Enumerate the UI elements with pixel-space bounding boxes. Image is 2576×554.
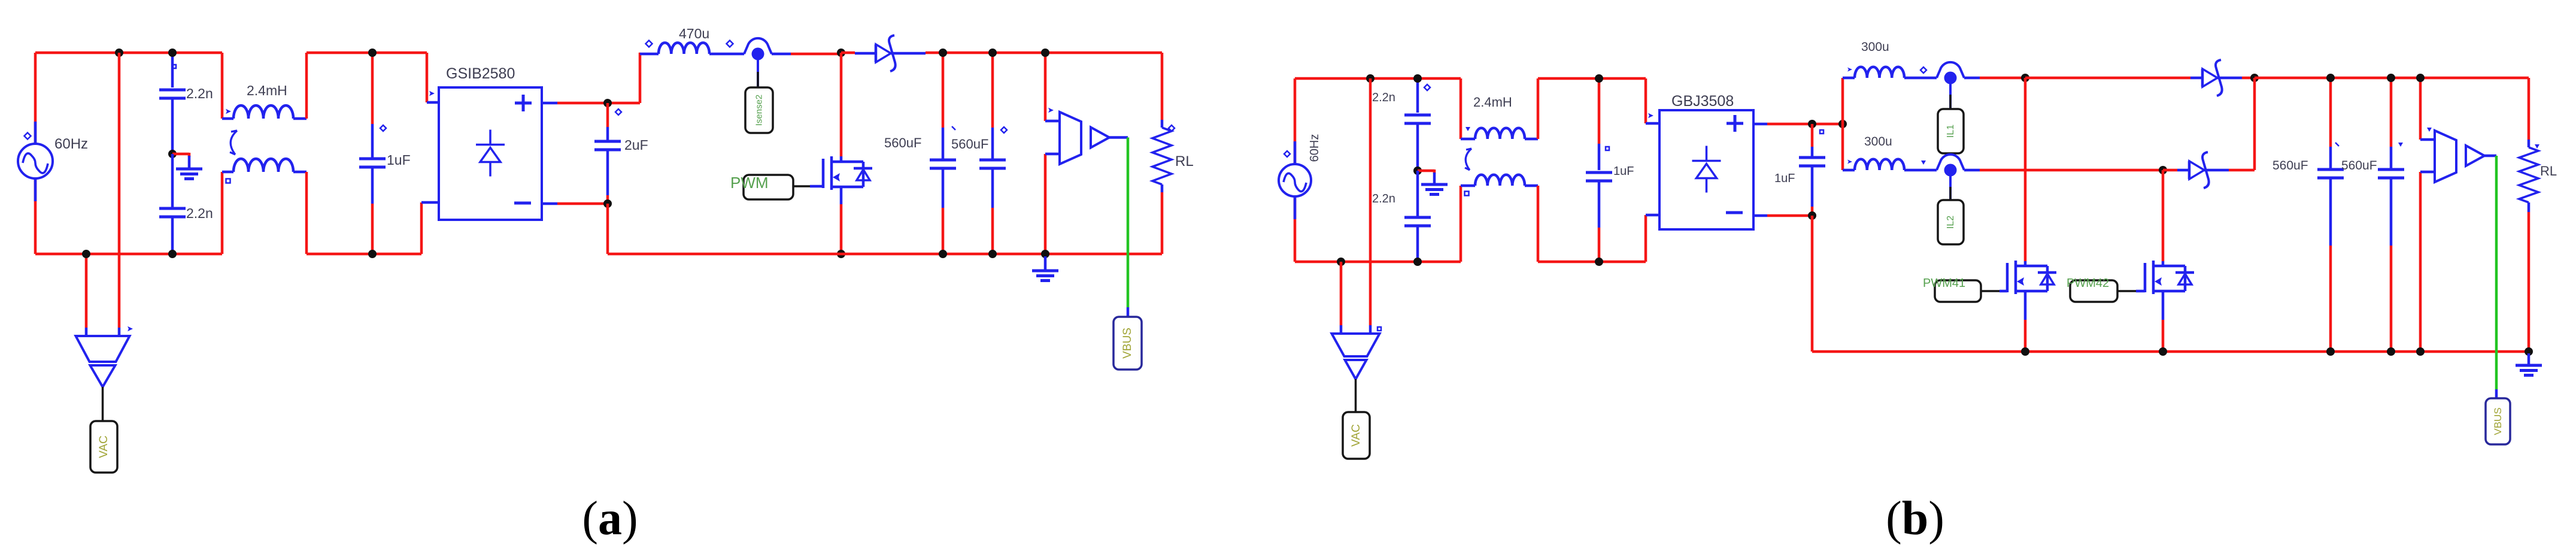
wire bottom rail mid (a)	[307, 253, 421, 256]
PWM41 block (b)	[1923, 277, 2007, 302]
capacitor C5 560uF first (a)	[884, 53, 956, 254]
wire top rail mid (a)	[307, 52, 427, 55]
wire RL drop (b)	[2528, 212, 2531, 352]
wire minus drop (b)	[1811, 216, 1814, 352]
transistor Q2 MOSFET-1 (b)	[2007, 261, 2056, 294]
resistor RL (a)	[1152, 120, 1194, 192]
wire top row to diode1 (b)	[2025, 77, 2202, 80]
label VAC (b)	[1343, 412, 1370, 459]
wire sensor output green (a)	[1127, 138, 1130, 317]
wire bridge out- (b)	[1753, 214, 1812, 217]
wire minus drop (a)	[606, 204, 609, 254]
voltage sensor VS2 (b)	[2420, 128, 2496, 182]
svg-text:1uF: 1uF	[1774, 172, 1795, 185]
wire bridge input bottom (a)	[421, 202, 439, 254]
wire choke right-top vertical (b)	[1537, 78, 1540, 139]
wire mosfet source (a)	[840, 187, 843, 254]
caption (b)	[1886, 492, 1944, 545]
node junction cap bottom (a)	[168, 250, 177, 258]
wire mosfet drain (a)	[840, 53, 843, 162]
wire M2 source (b)	[2162, 291, 2165, 352]
wire probe stem (a)	[102, 387, 104, 421]
wire bridge out- (a)	[542, 202, 608, 205]
wire sensor stem (b)	[1949, 84, 1952, 109]
svg-text:2.2n: 2.2n	[1372, 192, 1395, 205]
svg-text:Isense2: Isense2	[754, 95, 764, 126]
inductor L2 470u (a)	[646, 26, 745, 54]
node junctions C11 (b)	[2326, 74, 2335, 356]
wire RL riser (a)	[1161, 53, 1164, 120]
node junction 2uF top (a)	[603, 99, 612, 107]
wire sensor output green (b)	[2495, 156, 2498, 398]
node junction M2 drain tap (b)	[2159, 166, 2167, 174]
node junction 1uF bottom (a)	[368, 250, 377, 258]
label VBUS (b)	[2486, 398, 2510, 444]
wire boost riser (a)	[639, 53, 641, 103]
current sensor S1 (a)	[744, 38, 772, 60]
wire to diode (a)	[841, 53, 876, 53]
svg-text:560uF: 560uF	[884, 135, 921, 150]
node junction cap bottom (b)	[1413, 258, 1422, 266]
capacitor C4 2uF (a)	[594, 103, 648, 204]
node junction 1uF bottom (b)	[1595, 258, 1603, 266]
node junction riser T (b)	[1838, 120, 1847, 128]
wire RL riser (b)	[2528, 78, 2531, 140]
svg-text:560uF: 560uF	[951, 137, 988, 152]
voltage probe VP1 (a)	[76, 326, 133, 387]
wire top rail right (b)	[2255, 77, 2529, 80]
wire sensor feed bottom (a)	[1044, 154, 1047, 254]
coupling arc (a)	[230, 131, 237, 155]
current sensor S2 (b)	[1937, 62, 1964, 84]
wire bridge input top (b)	[1646, 78, 1659, 123]
node junction M1 drain tap (b)	[2021, 74, 2029, 82]
svg-text:GSIB2580: GSIB2580	[446, 65, 515, 82]
wire M2 drain (b)	[2162, 170, 2165, 266]
diode D2 top (b)	[2202, 60, 2222, 96]
capacitor C9 1uF (b)	[1586, 78, 1634, 262]
wire probe stem (b)	[1355, 379, 1357, 412]
wire sensor stem 2 (b)	[1949, 176, 1952, 200]
node junction 1uF top (b)	[1595, 74, 1603, 83]
voltage probe VP2 (b)	[1332, 325, 1382, 379]
wire choke right-bottom vertical (a)	[305, 172, 308, 254]
svg-text:2.2n: 2.2n	[186, 205, 213, 221]
node junction RL bottom (b)	[2525, 347, 2533, 356]
node junction bottom probe-tap (a)	[82, 250, 90, 258]
svg-text:VAC: VAC	[98, 435, 110, 458]
wire bottom rail left (b)	[1295, 261, 1461, 264]
capacitor C12 560uF second (b)	[2341, 78, 2404, 352]
diode D3 bottom (b)	[2189, 152, 2209, 188]
PWM42 block (b)	[2067, 277, 2145, 302]
wire probe line B (b)	[1369, 78, 1372, 325]
svg-text:300u: 300u	[1864, 135, 1892, 149]
node junction 1uF top (a)	[368, 49, 377, 57]
ground G2 (a)	[1032, 256, 1058, 281]
resistor RL (b)	[2519, 140, 2557, 212]
wire bridge out+ (b)	[1753, 123, 1843, 126]
wire bridge input top (a)	[427, 53, 439, 102]
wire choke left-bottom vertical (a)	[221, 172, 224, 254]
node junction sensor bottom (a)	[1041, 250, 1049, 258]
inductor L3a 2.4mH top coil (b)	[1461, 95, 1538, 139]
svg-text:300u: 300u	[1861, 40, 1889, 54]
probe inputs (a)	[0, 0, 1, 1]
svg-text:PWM42: PWM42	[2067, 277, 2109, 290]
svg-text:IL1: IL1	[1946, 125, 1956, 138]
inductor L5 300u bottom (b)	[1847, 135, 1937, 170]
node junction M2 source (b)	[2159, 347, 2167, 356]
wire sensor to mosfet node (a)	[772, 53, 841, 56]
svg-text:IL2: IL2	[1946, 216, 1956, 229]
svg-text:RL: RL	[1175, 153, 1194, 169]
inductor L3b 2.4mH bottom coil (b)	[1461, 175, 1538, 196]
wire probe line A (a)	[85, 254, 88, 328]
svg-text:1uF: 1uF	[1613, 165, 1634, 178]
wire choke left-bottom vertical (b)	[1460, 186, 1463, 262]
wire RL drop (a)	[1161, 192, 1164, 254]
wire choke left-top vertical (b)	[1460, 78, 1463, 139]
node junction bottom probe-tap (b)	[1337, 258, 1345, 266]
capacitor C11 560uF first (b)	[2272, 78, 2344, 352]
node junction 1uF2 top (b)	[1808, 120, 1816, 128]
node junction diode2 join (b)	[2250, 74, 2259, 82]
node junctions C6 (a)	[988, 49, 997, 258]
wire riser to inductor (a)	[640, 53, 659, 56]
wire choke left-top vertical (a)	[221, 53, 224, 119]
caption (a)	[582, 492, 638, 545]
node junction 2uF bottom (a)	[603, 199, 612, 208]
svg-text:2.4mH: 2.4mH	[1473, 95, 1512, 110]
svg-text:(b): (b)	[1886, 492, 1944, 545]
capacitor C2 2.2n bottom (a)	[159, 154, 213, 254]
svg-text:VBUS: VBUS	[1121, 328, 1134, 359]
svg-text:RL: RL	[2540, 164, 2557, 178]
ground G1 (a)	[176, 156, 202, 179]
wire M1 source (b)	[2024, 291, 2027, 352]
wire choke right-bottom vertical (b)	[1537, 186, 1540, 262]
wire riser to L5 (b)	[1843, 169, 1855, 172]
wire riser down (b)	[1841, 124, 1844, 170]
sensor label IL1 (b)	[1938, 109, 1964, 153]
wire left vertical (a)	[34, 53, 37, 254]
wire bottom return rail (b)	[1812, 350, 2529, 353]
node junction cap top (b)	[1413, 74, 1422, 83]
wire probe line B (a)	[118, 53, 121, 328]
node junction sensor top (b)	[2416, 74, 2425, 82]
svg-text:PWM41: PWM41	[1923, 277, 1965, 290]
wire sensor feed top (a)	[1044, 53, 1047, 121]
svg-text:GBJ3508: GBJ3508	[1671, 93, 1734, 110]
wire diode2 out (b)	[2204, 169, 2255, 172]
node junctions C12 (b)	[2387, 74, 2395, 356]
current sensor S3 (b)	[1937, 155, 1964, 177]
wire sensor feed top (b)	[2419, 78, 2422, 140]
svg-text:VAC: VAC	[1350, 424, 1363, 447]
capacitor C10 1uF second (b)	[1774, 124, 1825, 216]
wire diode to caps (a)	[891, 53, 1162, 53]
wire sensor to node (b)	[1964, 77, 2025, 80]
wire choke right-top vertical (a)	[305, 53, 308, 119]
wire ground stub (a)	[172, 153, 189, 157]
node junction 1uF2 bottom (b)	[1808, 211, 1816, 220]
label VAC (a)	[90, 421, 117, 473]
svg-text:2.2n: 2.2n	[186, 86, 213, 101]
voltage sensor VS1 (a)	[1045, 108, 1128, 164]
wire bridge input bottom (b)	[1646, 215, 1659, 262]
wire left vertical (b)	[1294, 78, 1297, 262]
inductor L1a 2.4mH top coil (a)	[222, 83, 307, 119]
wire bottom rail left (a)	[35, 253, 222, 256]
node junction cap mid / ground tap (a)	[168, 150, 177, 158]
svg-text:PWM: PWM	[730, 174, 769, 192]
capacitor C3 1uF (a)	[359, 53, 411, 254]
label VBUS (a)	[1113, 317, 1142, 370]
wire top rail left (a)	[35, 52, 222, 55]
node junction mosfet drain tap (a)	[837, 49, 845, 57]
node junction mosfet source (a)	[837, 250, 845, 258]
capacitor C6 560uF second (a)	[951, 53, 1007, 254]
inductor L4 300u top (b)	[1847, 40, 1937, 78]
sensor label IL2 (b)	[1938, 200, 1964, 244]
diode D1 boost (a)	[876, 35, 896, 71]
capacitor C8 2.2n bottom (b)	[1372, 171, 1431, 262]
node junction sensor bottom (b)	[2416, 347, 2425, 356]
ground G3 (b)	[1421, 172, 1448, 195]
wire bottom rail mid (b)	[1538, 261, 1646, 264]
inductor L1b 2.4mH bottom coil (a)	[222, 159, 307, 183]
svg-text:1uF: 1uF	[387, 152, 411, 168]
node junction cap top (a)	[168, 49, 177, 57]
wire sensor to node 2 (b)	[1964, 169, 2163, 172]
coupling arc (b)	[1465, 149, 1471, 170]
node junction cap mid / ground tap (b)	[1413, 166, 1422, 175]
wire riser up (b)	[1841, 78, 1844, 124]
wire probe line A (b)	[1340, 262, 1343, 325]
bridge rectifier U2 GBJ3508 (b)	[1659, 93, 1753, 229]
sensor label Isense20 (a)	[745, 87, 773, 133]
node junction M1 source (b)	[2021, 347, 2029, 356]
wire row2 to diode2 (b)	[2163, 169, 2189, 172]
AC source V2 60Hz (b)	[1279, 134, 1321, 219]
transistor Q1 MOSFET (a)	[823, 156, 872, 190]
wire riser to L4 (b)	[1843, 77, 1855, 80]
capacitor C7 2.2n top (b)	[1372, 78, 1431, 171]
wire M1 drain (b)	[2024, 78, 2027, 266]
svg-text:2.2n: 2.2n	[1372, 91, 1395, 104]
wire diode2 riser (b)	[2253, 78, 2256, 170]
svg-text:VBUS: VBUS	[2492, 407, 2504, 435]
wire diode1 out (b)	[2217, 77, 2255, 80]
node junction top probe-tap (a)	[115, 49, 123, 57]
wire ground stub (b)	[1418, 169, 1434, 174]
node junction sensor top (a)	[1041, 49, 1049, 57]
node junctions C5 (a)	[939, 49, 955, 258]
svg-text:2uF: 2uF	[624, 137, 648, 153]
svg-text:60Hz: 60Hz	[1308, 134, 1321, 162]
wire bridge out+ (a)	[542, 102, 640, 105]
bridge rectifier U1 GSIB2580 (a)	[439, 65, 542, 220]
wire bottom rail right (a)	[608, 253, 1162, 256]
svg-text:560uF: 560uF	[2341, 159, 2377, 172]
capacitor C1 2.2n top (a)	[159, 53, 213, 152]
wire sensor stem (a)	[757, 60, 759, 87]
node junction top probe-tap (b)	[1366, 74, 1375, 83]
wire sensor feed bottom (b)	[2419, 172, 2422, 352]
svg-text:(a): (a)	[582, 492, 638, 545]
PWM block (a)	[730, 174, 823, 199]
ground G4 (b)	[2516, 353, 2542, 376]
wire top rail left (b)	[1295, 77, 1461, 80]
AC source V1 60Hz (a)	[18, 122, 88, 201]
svg-text:2.4mH: 2.4mH	[247, 83, 287, 98]
svg-text:470u: 470u	[679, 26, 709, 41]
svg-text:560uF: 560uF	[2272, 159, 2308, 172]
transistor Q3 MOSFET-2 (b)	[2145, 261, 2194, 294]
svg-text:60Hz: 60Hz	[54, 136, 88, 152]
wire top rail mid (b)	[1538, 77, 1646, 80]
